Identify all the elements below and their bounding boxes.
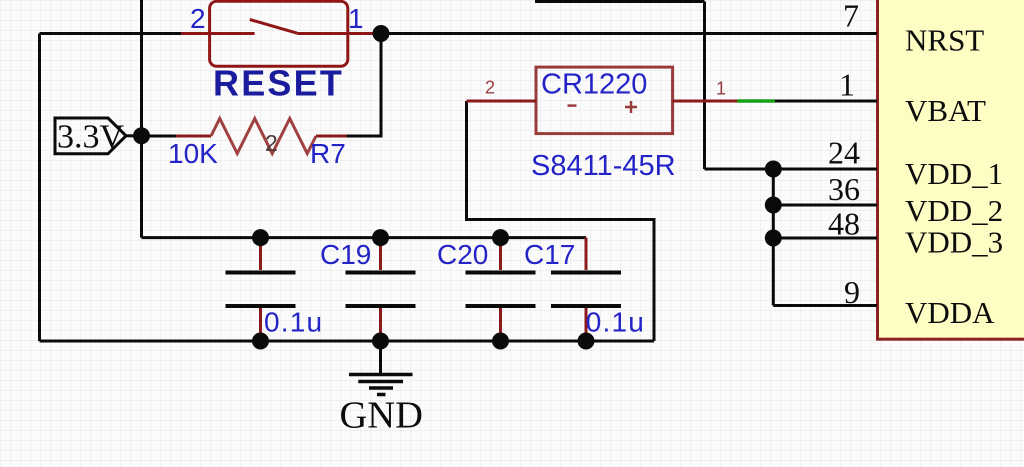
wire left vertical to GND rail [38, 34, 41, 342]
svg-text:1: 1 [716, 79, 726, 99]
wire VDD junction vertical [772, 169, 775, 306]
svg-text:CR1220: CR1220 [541, 69, 647, 101]
svg-text:GND: GND [340, 394, 423, 436]
junction top rail C20 [492, 229, 509, 246]
wire VDD_1 pin line [705, 168, 878, 171]
capacitor C17 [551, 238, 621, 341]
wire VBAT green segment [737, 99, 775, 103]
svg-text:NRST: NRST [905, 23, 984, 58]
wire top edge horizontal [535, 0, 705, 3]
svg-text:10K: 10K [168, 138, 218, 169]
svg-text:VDDA: VDDA [905, 295, 995, 330]
power flag 3.3V [55, 118, 142, 156]
svg-text:2: 2 [190, 3, 206, 34]
wire NRST top-left horizontal [40, 32, 182, 35]
capacitor C19 [346, 238, 416, 341]
wire VDD_3 pin line [773, 237, 877, 240]
junction VDD_3 [765, 230, 782, 247]
wire VDD vertical from top [703, 2, 706, 170]
junction at 3.3V / R7 [133, 127, 150, 144]
svg-text:36: 36 [828, 171, 860, 207]
wire VBAT black segment [775, 100, 877, 103]
svg-text:48: 48 [828, 206, 860, 242]
wire NRST from switch to IC pin 7 [381, 32, 877, 35]
IC U? power/reset pins block [878, 0, 1024, 339]
wire 3.3V vertical [140, 0, 143, 238]
capacitor C20 [466, 238, 536, 341]
wire 3.3V dot to R7 left lead [142, 135, 178, 138]
battery pin 1 lead [673, 100, 737, 103]
junction bottom rail C19/GND [372, 333, 389, 350]
svg-text:24: 24 [828, 135, 860, 171]
wire VDD_2 pin line [773, 204, 877, 207]
svg-text:2: 2 [265, 130, 278, 156]
svg-text:R7: R7 [310, 138, 346, 169]
wire GND bottom rail [40, 340, 655, 343]
svg-text:0.1u: 0.1u [264, 306, 323, 337]
wire 3.3V top rail of capacitors [142, 236, 587, 239]
capacitor C18 (left, unlabeled) [226, 238, 296, 341]
junction bottom rail C17 [578, 333, 595, 350]
battery pin 2 lead [467, 100, 537, 103]
junction at switch pin 1 / NRST [373, 25, 390, 42]
svg-text:2: 2 [485, 78, 495, 98]
svg-text:9: 9 [844, 274, 860, 310]
wire battery negative to GND rail [467, 101, 655, 341]
svg-text:1: 1 [348, 3, 364, 34]
junction VDD_1 [765, 161, 782, 178]
svg-text:RESET: RESET [213, 63, 344, 104]
junction top rail C19 [372, 229, 389, 246]
resistor R7 [176, 119, 347, 154]
wire VDDA pin line [773, 304, 877, 307]
svg-text:VDD_1: VDD_1 [905, 156, 1003, 191]
svg-text:C17: C17 [524, 239, 575, 270]
svg-text:0.1u: 0.1u [586, 306, 645, 337]
svg-text:1: 1 [839, 67, 855, 103]
switch pin 2 lead [181, 32, 210, 35]
svg-text:C20: C20 [437, 239, 488, 270]
svg-text:3.3V: 3.3V [57, 119, 125, 156]
switch SW1 RESET body [210, 1, 348, 66]
svg-text:C19: C19 [320, 239, 371, 270]
svg-text:VBAT: VBAT [905, 93, 986, 128]
switch pin 1 lead [348, 32, 381, 35]
junction bottom rail C18 [252, 333, 269, 350]
svg-text:7: 7 [843, 0, 859, 34]
svg-text:VDD_2: VDD_2 [905, 193, 1003, 228]
ground GND symbol [349, 341, 413, 395]
svg-text:VDD_3: VDD_3 [905, 225, 1003, 260]
junction top rail C18 [252, 229, 269, 246]
junction VDD_2 [765, 197, 782, 214]
wire NRST vertical down to R7 [347, 34, 381, 137]
battery BT? CR1220 body [536, 67, 673, 134]
svg-text:S8411-45R: S8411-45R [531, 150, 676, 182]
junction bottom rail C20 [492, 333, 509, 350]
